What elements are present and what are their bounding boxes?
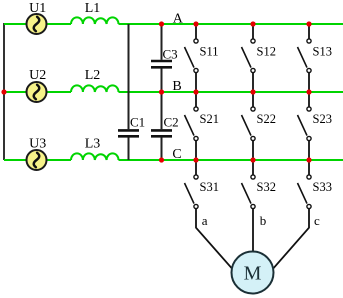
switch S11 [185, 24, 199, 92]
svg-text:S21: S21 [200, 112, 219, 126]
wire: S32 to motor (phase b lead) [252, 209, 254, 252]
junction: A / C-branch [159, 21, 164, 26]
svg-text:S33: S33 [313, 180, 332, 194]
capacitor C1 [118, 130, 139, 136]
junction: C / C-branch [159, 157, 164, 162]
svg-text:S13: S13 [313, 45, 332, 59]
svg-text:L3: L3 [85, 137, 101, 152]
svg-text:S12: S12 [257, 45, 276, 59]
wire: phase C bus [4, 159, 343, 161]
junction: B / S22 [250, 89, 255, 94]
inductor L3 [71, 153, 119, 160]
svg-text:L2: L2 [85, 68, 101, 83]
wire: A bus to C3 top [161, 24, 163, 60]
junction: A / S13 [306, 21, 311, 26]
junction: tie-B [1, 89, 6, 94]
wire: C3 bottom to B bus [161, 69, 163, 93]
wire: A bus to C1 top [128, 24, 130, 129]
svg-text:S11: S11 [200, 45, 219, 59]
motor M [232, 252, 274, 294]
junction: B / C-branch [159, 89, 164, 94]
switch S32 [242, 160, 256, 209]
junction: A / S12 [250, 21, 255, 26]
switch S23 [298, 92, 312, 160]
svg-text:C2: C2 [164, 115, 179, 130]
svg-text:a: a [202, 213, 208, 228]
junction: C / S32 [250, 157, 255, 162]
wire: S31 to motor (phase a lead) [196, 209, 232, 268]
capacitor C2 [151, 130, 172, 136]
capacitor C3 [151, 61, 172, 67]
voltage source U1 [27, 14, 47, 34]
svg-text:b: b [260, 213, 267, 228]
wire: S33 to motor (phase c lead) [274, 209, 310, 268]
svg-text:S23: S23 [313, 112, 332, 126]
wire: C1 bottom to C bus [128, 138, 130, 161]
svg-text:c: c [314, 213, 320, 228]
svg-text:A: A [173, 12, 184, 27]
svg-text:C1: C1 [130, 115, 145, 130]
svg-text:C: C [172, 147, 181, 162]
switch S31 [185, 160, 199, 209]
wire: phase A bus [4, 23, 343, 25]
switch S33 [298, 160, 312, 209]
svg-text:S32: S32 [257, 180, 276, 194]
wire: B bus to C2 top [161, 92, 163, 129]
svg-text:U2: U2 [29, 68, 46, 83]
switch S21 [185, 92, 199, 160]
svg-text:S31: S31 [200, 180, 219, 194]
voltage source U2 [27, 82, 47, 102]
voltage source U3 [27, 150, 47, 170]
svg-text:C3: C3 [163, 47, 178, 62]
inductor L2 [71, 85, 119, 92]
junction: C / S33 [306, 157, 311, 162]
wire: phase B bus [4, 91, 343, 93]
wire: left neutral tie (vertical) [3, 23, 5, 160]
svg-text:B: B [172, 79, 181, 94]
svg-text:M: M [244, 263, 262, 285]
junction: C / S31 [193, 157, 198, 162]
inductor L1 [71, 17, 119, 24]
wire: C2 bottom to C bus [161, 138, 163, 161]
switch S13 [298, 24, 312, 92]
junction: B / S23 [306, 89, 311, 94]
svg-text:S22: S22 [257, 112, 276, 126]
switch S22 [242, 92, 256, 160]
switch S12 [242, 24, 256, 92]
svg-text:U3: U3 [29, 137, 46, 152]
svg-text:L1: L1 [85, 1, 101, 16]
junction: A / S11 [193, 21, 198, 26]
svg-text:U1: U1 [29, 1, 46, 16]
junction: B / S21 [193, 89, 198, 94]
